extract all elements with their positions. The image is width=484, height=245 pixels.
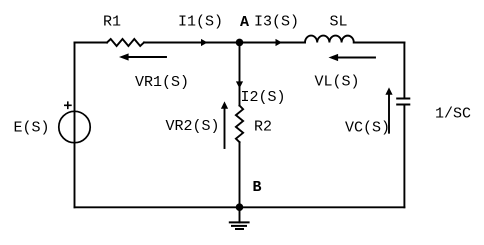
svg-text:A: A bbox=[240, 14, 249, 31]
svg-text:SL: SL bbox=[330, 14, 348, 31]
svg-text:E(S): E(S) bbox=[14, 120, 50, 137]
svg-text:I1(S): I1(S) bbox=[178, 14, 223, 31]
svg-text:VR2(S): VR2(S) bbox=[166, 118, 220, 135]
svg-text:VR1(S): VR1(S) bbox=[135, 74, 189, 91]
svg-text:I2(S): I2(S) bbox=[241, 89, 286, 106]
svg-text:R1: R1 bbox=[103, 14, 121, 31]
svg-text:I3(S): I3(S) bbox=[254, 14, 299, 31]
svg-text:1/SC: 1/SC bbox=[435, 106, 471, 123]
svg-text:R2: R2 bbox=[254, 119, 272, 136]
svg-text:VL(S): VL(S) bbox=[315, 74, 360, 91]
svg-text:VC(S): VC(S) bbox=[345, 120, 390, 137]
svg-text:B: B bbox=[253, 179, 262, 196]
